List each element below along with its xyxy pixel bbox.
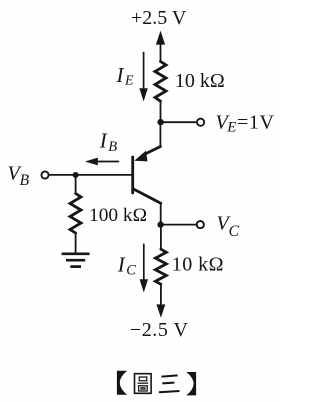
resistor RC 10k zigzag bbox=[155, 249, 166, 284]
wire node VC to resistor RC bbox=[160, 225, 162, 250]
wire supply arrow shaft bbox=[160, 42, 162, 62]
wire RB to ground bbox=[75, 233, 77, 253]
svg-text:E: E bbox=[124, 74, 134, 89]
wire emitter lead (node VE down to transistor) bbox=[159, 122, 161, 146]
transistor Q1 base bar bbox=[131, 157, 134, 193]
node VC junction dot bbox=[157, 221, 163, 227]
caption glyph TU (figure) bbox=[135, 374, 152, 394]
ground symbol bbox=[62, 254, 90, 267]
arrow IB current (left) bbox=[97, 161, 119, 163]
wire node VC to terminal bbox=[161, 224, 197, 226]
wire RC to negative supply arrow bbox=[160, 284, 162, 306]
label VE=1V bbox=[216, 111, 275, 135]
svg-text:B: B bbox=[108, 139, 117, 155]
terminal VE open circle bbox=[197, 119, 204, 126]
current label IC bbox=[117, 252, 136, 278]
caption bracket right bbox=[186, 372, 196, 395]
arrow down to -2.5V supply bbox=[157, 304, 166, 317]
svg-text:E: E bbox=[226, 120, 236, 136]
svg-text:I: I bbox=[117, 252, 126, 276]
terminal VB open circle bbox=[41, 171, 48, 178]
arrow up to +2.5V supply bbox=[156, 31, 165, 45]
transistor Q1 collector diagonal bbox=[134, 189, 161, 203]
wire node B down to RB bbox=[75, 175, 77, 194]
label VC bbox=[217, 212, 240, 240]
svg-text:I: I bbox=[116, 63, 125, 87]
label VB bbox=[8, 162, 30, 189]
current label IE bbox=[116, 63, 135, 89]
current label IB bbox=[99, 128, 117, 155]
svg-text:+2.5 V: +2.5 V bbox=[131, 7, 187, 29]
caption glyph SAN (three) bbox=[159, 375, 180, 392]
caption bracket left bbox=[117, 371, 127, 395]
wire collector lead (transistor to node VC) bbox=[160, 203, 162, 224]
resistor RE 10k zigzag bbox=[155, 62, 166, 102]
svg-text:−2.5 V: −2.5 V bbox=[130, 319, 189, 341]
svg-text:100 kΩ: 100 kΩ bbox=[89, 205, 147, 226]
wire base (VB terminal to transistor base) bbox=[49, 174, 132, 176]
transistor Q1 emitter diagonal with arrow (PNP) bbox=[143, 147, 161, 156]
terminal VC open circle bbox=[197, 221, 204, 228]
node B junction dot bbox=[73, 172, 79, 178]
svg-text:B: B bbox=[20, 172, 30, 189]
resistor RB 100k zigzag bbox=[70, 194, 81, 234]
svg-text:=1V: =1V bbox=[237, 111, 275, 133]
wire node VE to terminal bbox=[161, 121, 197, 123]
svg-text:10 kΩ: 10 kΩ bbox=[175, 70, 225, 92]
svg-text:10 kΩ: 10 kΩ bbox=[172, 254, 224, 276]
svg-text:I: I bbox=[99, 128, 108, 152]
wire resistor RE to node VE bbox=[160, 101, 162, 122]
node VE junction dot bbox=[157, 119, 163, 125]
svg-text:C: C bbox=[229, 223, 240, 240]
arrow IC current (down) bbox=[143, 244, 145, 280]
arrow IE current (down) bbox=[143, 53, 145, 90]
svg-text:C: C bbox=[126, 263, 136, 279]
